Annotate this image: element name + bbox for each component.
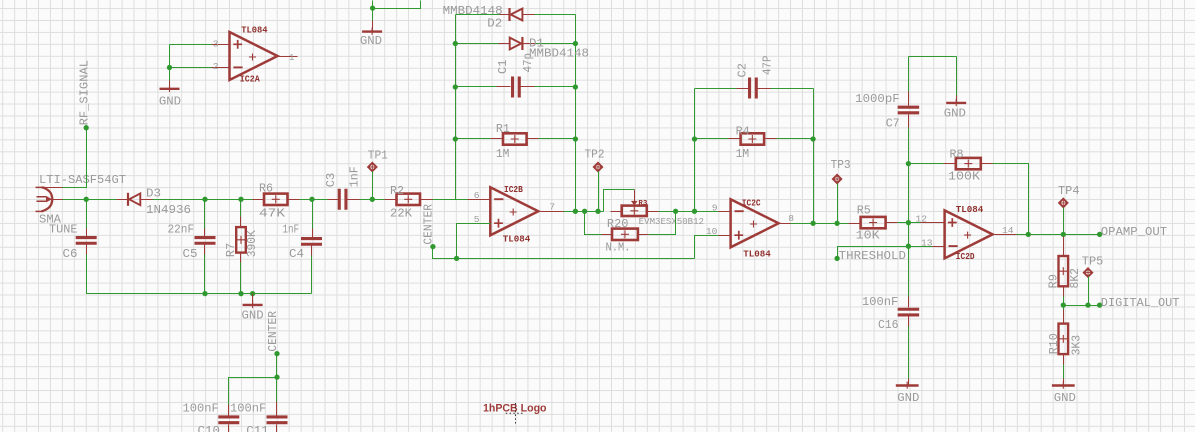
svg-text:GND: GND — [159, 95, 181, 109]
junction at R7 — [238, 197, 243, 202]
svg-text:R6: R6 — [259, 181, 273, 195]
resistor R8 100K feedback — [909, 163, 944, 165]
junction OPAMP_OUT label point — [1097, 232, 1102, 237]
wire comparator node rail down — [908, 164, 910, 297]
svg-text:C1: C1 — [496, 60, 510, 75]
pin 13 of IC2D — [909, 246, 933, 248]
svg-text:CENTER: CENTER — [266, 310, 280, 351]
junction rail-908 at R8 — [906, 161, 911, 166]
svg-text:100nF: 100nF — [862, 295, 898, 309]
test point TP5 — [1084, 268, 1092, 276]
capacitor C6 — [86, 200, 88, 229]
ground GND (IC2A inputs) — [169, 81, 171, 89]
svg-text:390K: 390K — [245, 230, 259, 258]
svg-text:47K: 47K — [259, 206, 286, 220]
resistor R20 N.M. branch wire — [585, 212, 602, 235]
wire R3 to IC2C pin 9 — [659, 211, 719, 213]
svg-text:IC2C: IC2C — [742, 198, 761, 208]
pin 6 of IC2B — [468, 199, 491, 201]
junction rail-right at R1 — [573, 136, 578, 141]
svg-text:C11: C11 — [246, 424, 268, 432]
svg-text:3: 3 — [213, 38, 219, 49]
svg-text:C6: C6 — [63, 247, 78, 261]
svg-text:GND: GND — [1054, 391, 1076, 405]
junction rail-813 at output — [810, 221, 815, 226]
capacitor C4 1nF — [312, 200, 314, 229]
svg-text:47p: 47p — [521, 53, 535, 73]
wire THRESHOLD — [838, 247, 909, 259]
svg-text:GND: GND — [897, 391, 919, 405]
svg-text:14: 14 — [1002, 225, 1014, 236]
junction at pin 12 node — [906, 220, 911, 225]
wire RF_SIGNAL vertical — [63, 128, 87, 188]
pin 3 of IC2A — [212, 44, 230, 46]
diode D3 1N4936 — [117, 199, 129, 201]
svg-text:6: 6 — [474, 190, 480, 201]
svg-text:IC2B: IC2B — [504, 185, 523, 195]
svg-text:22K: 22K — [390, 206, 413, 220]
ground GND (C7) — [956, 57, 958, 96]
pin 1 of SMA — [48, 199, 63, 201]
capacitor C11 100nF — [276, 402, 278, 416]
pin 12 of IC2D — [909, 222, 921, 224]
wire CENTER-2 to C10 — [229, 378, 277, 405]
capacitor C3 1nF — [328, 199, 339, 201]
svg-text:THRESHOLD: THRESHOLD — [839, 249, 906, 263]
wire TUNE after D3 — [153, 199, 253, 201]
svg-text:R7: R7 — [224, 243, 238, 258]
wire CENTER-2 down — [276, 354, 278, 402]
pin 7 of IC2B (output) — [539, 211, 564, 213]
ground GND (bottom rail) — [252, 294, 254, 305]
svg-text:R3: R3 — [638, 200, 647, 208]
svg-text:1N4936: 1N4936 — [146, 203, 191, 217]
junction rail-left at D1 — [453, 41, 458, 46]
junction at pin 13 node — [906, 244, 911, 249]
junction rail-right at C1 — [573, 84, 578, 89]
junction rail-813 at R4 — [810, 136, 815, 141]
junction rail-left at C1 — [453, 84, 458, 89]
wire R2 to IC2B pin 6 — [433, 199, 468, 201]
resistor R5 10K — [849, 223, 861, 225]
junction TUNE at C6 — [84, 197, 89, 202]
junction CENTER-2 split — [274, 374, 279, 379]
wire DIGITAL_OUT — [1064, 305, 1100, 307]
junction rail-694 at R4 — [692, 136, 697, 141]
capacitor C1 47p — [456, 86, 497, 88]
svg-text:1000pF: 1000pF — [855, 92, 900, 106]
svg-text:TL084: TL084 — [956, 205, 984, 215]
capacitor C7 1000pF to ground — [909, 56, 957, 58]
svg-text:R10: R10 — [1047, 333, 1061, 354]
pin 10 of IC2C — [719, 235, 731, 237]
svg-text:R1: R1 — [496, 122, 510, 136]
svg-text:RF_SIGNAL: RF_SIGNAL — [78, 60, 92, 125]
svg-text:TP2: TP2 — [585, 147, 605, 161]
svg-text:GND: GND — [242, 308, 264, 322]
ground GND (C16) — [896, 384, 919, 386]
junction DIGITAL_OUT label point — [1097, 302, 1102, 307]
wire clamp rail left (x=455) — [455, 15, 457, 200]
junction DIGITAL_OUT at TP5 — [1085, 302, 1090, 307]
svg-text:D2: D2 — [487, 16, 502, 30]
svg-text:8K2: 8K2 — [1068, 268, 1082, 289]
svg-text:EVM3ESX50B12: EVM3ESX50B12 — [639, 217, 704, 227]
svg-text:47P: 47P — [760, 56, 774, 76]
wire CENTER label to rail — [433, 247, 695, 259]
svg-text:7: 7 — [549, 201, 555, 212]
svg-text:R2: R2 — [390, 184, 404, 198]
svg-text:1: 1 — [289, 52, 295, 63]
pin 2 of IC2A — [212, 67, 230, 69]
op-amp IC2B (TL084) — [490, 187, 538, 235]
svg-text:IC2D: IC2D — [956, 252, 975, 262]
svg-text:GND: GND — [360, 34, 382, 48]
svg-text:R8: R8 — [950, 148, 964, 162]
pin 9 of IC2C — [719, 211, 731, 213]
resistor R9 8K2 — [1063, 237, 1065, 257]
capacitor C5 22nF — [204, 200, 206, 229]
resistor R20 (N.M.) — [602, 234, 613, 236]
svg-text:OPAMP_OUT: OPAMP_OUT — [1101, 225, 1167, 239]
svg-text:TL084: TL084 — [241, 25, 268, 35]
connector X? SMA (TUNE) — [42, 187, 53, 211]
pin 5 of IC2B — [471, 223, 491, 225]
wire IC2B output — [564, 211, 604, 213]
svg-text:TP3: TP3 — [831, 158, 851, 172]
test point TP1 — [368, 163, 376, 171]
ground GND (R10) — [1063, 379, 1065, 386]
resistor R10 3K3 — [1063, 306, 1065, 310]
junction bottom rail at GND stub — [250, 291, 255, 296]
junction OPAMP_OUT at R9 — [1061, 232, 1066, 237]
svg-text:C7: C7 — [886, 116, 900, 130]
svg-text:D3: D3 — [146, 186, 161, 200]
pin 1 of IC2A (output, unconnected) — [278, 56, 298, 58]
wire IC2A input ground tie — [169, 45, 171, 81]
svg-text:12: 12 — [916, 214, 928, 225]
test point TP4 — [1059, 199, 1067, 207]
svg-text:GND: GND — [944, 107, 966, 121]
svg-text:MMBD4148: MMBD4148 — [529, 46, 589, 60]
svg-text:C2: C2 — [735, 63, 749, 78]
capacitor C2 47P — [695, 88, 737, 90]
test point TP2 — [594, 163, 602, 171]
svg-text:100nF: 100nF — [230, 402, 266, 416]
wire CENTER rail to IC2C pin 10 — [695, 236, 719, 259]
svg-text:1nF: 1nF — [283, 222, 300, 236]
junction at C5 — [202, 197, 207, 202]
svg-text:8: 8 — [788, 213, 794, 224]
wire IC2C output to R5 — [791, 223, 849, 225]
svg-text:10K: 10K — [856, 228, 881, 242]
svg-text:TUNE: TUNE — [49, 222, 78, 236]
svg-text:R4: R4 — [736, 124, 750, 138]
svg-text:CENTER: CENTER — [421, 203, 435, 244]
pin 2 of SMA — [41, 187, 63, 189]
wire OPAMP_OUT — [1017, 234, 1100, 236]
svg-text:9: 9 — [712, 202, 718, 213]
svg-text:2: 2 — [213, 61, 219, 72]
junction at TP1 — [370, 197, 375, 202]
op-amp IC2D (TL084) — [945, 210, 993, 258]
resistor R6 47K — [253, 199, 265, 201]
diode D1 MMBD4148 — [456, 43, 499, 45]
svg-text:1M: 1M — [496, 147, 510, 161]
junction at IC2A pin 2 net — [167, 65, 172, 70]
wire C7 to comparator node rail — [908, 128, 910, 164]
pin 14 of IC2D (output) — [993, 234, 1017, 236]
junction RF_SIGNAL label point — [84, 125, 89, 130]
svg-text:N.M.: N.M. — [606, 241, 631, 255]
svg-text:1M: 1M — [736, 147, 750, 161]
svg-text:DIGITAL_OUT: DIGITAL_OUT — [1101, 296, 1180, 310]
svg-text:R20: R20 — [607, 217, 629, 231]
trimmer R3 wiper — [604, 190, 635, 212]
junction net N$1 — [370, 5, 375, 10]
svg-text:10: 10 — [706, 226, 718, 237]
svg-text:TP1: TP1 — [368, 149, 388, 163]
junction output at TP3 — [834, 221, 839, 226]
svg-text:C10: C10 — [198, 424, 221, 432]
op-amp IC2C (TL084) — [731, 199, 779, 247]
svg-text:C4: C4 — [289, 247, 304, 261]
svg-text:C16: C16 — [878, 318, 899, 332]
svg-text:22nF: 22nF — [168, 222, 195, 236]
wire net TUNE main horizontal — [63, 199, 117, 201]
wire IC2B pin 5 to CENTER rail — [471, 223, 491, 225]
svg-text:100nF: 100nF — [183, 402, 219, 416]
junction rail-right at output — [573, 209, 578, 214]
svg-text:TP4: TP4 — [1058, 184, 1080, 198]
test point TP3 — [833, 175, 841, 183]
junction rail-left at R1 — [453, 136, 458, 141]
svg-text:R9: R9 — [1047, 274, 1061, 289]
resistor R4 1M — [695, 138, 729, 140]
resistor R7 390K — [240, 200, 242, 217]
wire net N$1 top-left corner — [372, 1, 374, 9]
junction DIGITAL_OUT at R9/R10 — [1061, 302, 1066, 307]
wire to IC2A pin 3 — [170, 44, 212, 46]
wire after R6 — [300, 199, 328, 201]
svg-text:LTI-SASF54GT: LTI-SASF54GT — [39, 173, 126, 187]
wire clamp rail right (x=575) — [575, 15, 577, 212]
svg-text:C3: C3 — [324, 173, 338, 188]
wire R20 to pin9 net — [649, 212, 676, 235]
pin 8 of IC2C (output) — [779, 223, 791, 225]
junction output at TP2 — [595, 209, 600, 214]
diode D2 MMBD4148 — [456, 14, 500, 16]
ground GND (top-left) — [372, 9, 374, 21]
svg-text:13: 13 — [921, 238, 933, 249]
wire R5 to IC2D pin 12 node — [898, 222, 909, 224]
svg-text:TL084: TL084 — [743, 249, 771, 259]
junction CENTER-2 label point — [274, 351, 279, 356]
junction at C4 — [309, 197, 314, 202]
svg-text:TL084: TL084 — [503, 234, 531, 244]
op-amp IC2A (TL084) — [230, 32, 278, 80]
logo origin cross (dotted) — [506, 403, 523, 424]
junction rail-right at D1 — [573, 41, 578, 46]
capacitor C10 100nF — [228, 405, 230, 416]
capacitor C16 100nF to ground — [908, 297, 910, 308]
resistor R2 22K — [385, 199, 397, 201]
wire feedback rail right (x=813) — [813, 89, 815, 224]
svg-text:3K3: 3K3 — [1070, 335, 1084, 356]
svg-text:IC2A: IC2A — [240, 75, 261, 85]
junction bottom rail at C5 — [202, 291, 207, 296]
junction pin9 net at R20 branch — [673, 209, 678, 214]
junction output to R20 branch — [582, 209, 587, 214]
junction bottom rail at R7 — [238, 291, 243, 296]
svg-text:1nF: 1nF — [348, 166, 362, 187]
junction THRESHOLD label point — [834, 256, 839, 261]
junction pin9 at feedback rail — [692, 209, 697, 214]
svg-text:TP5: TP5 — [1082, 254, 1104, 268]
svg-text:R5: R5 — [857, 203, 871, 217]
wire to IC2A pin 2 — [170, 67, 212, 69]
resistor R1 1M — [456, 138, 491, 140]
svg-text:100K: 100K — [948, 169, 981, 183]
svg-text:C5: C5 — [183, 247, 198, 261]
wire C6 to bottom rail — [87, 255, 312, 294]
junction CENTER rail at pin5 branch — [454, 256, 459, 261]
junction OPAMP_OUT at R8 feedback — [1026, 232, 1031, 237]
trimmer R3 EVM3ESX50B12 — [611, 211, 622, 213]
junction CENTER label point — [430, 244, 435, 249]
wire C3 to R2 — [360, 199, 385, 201]
wire feedback rail left (x=694) — [694, 89, 696, 212]
